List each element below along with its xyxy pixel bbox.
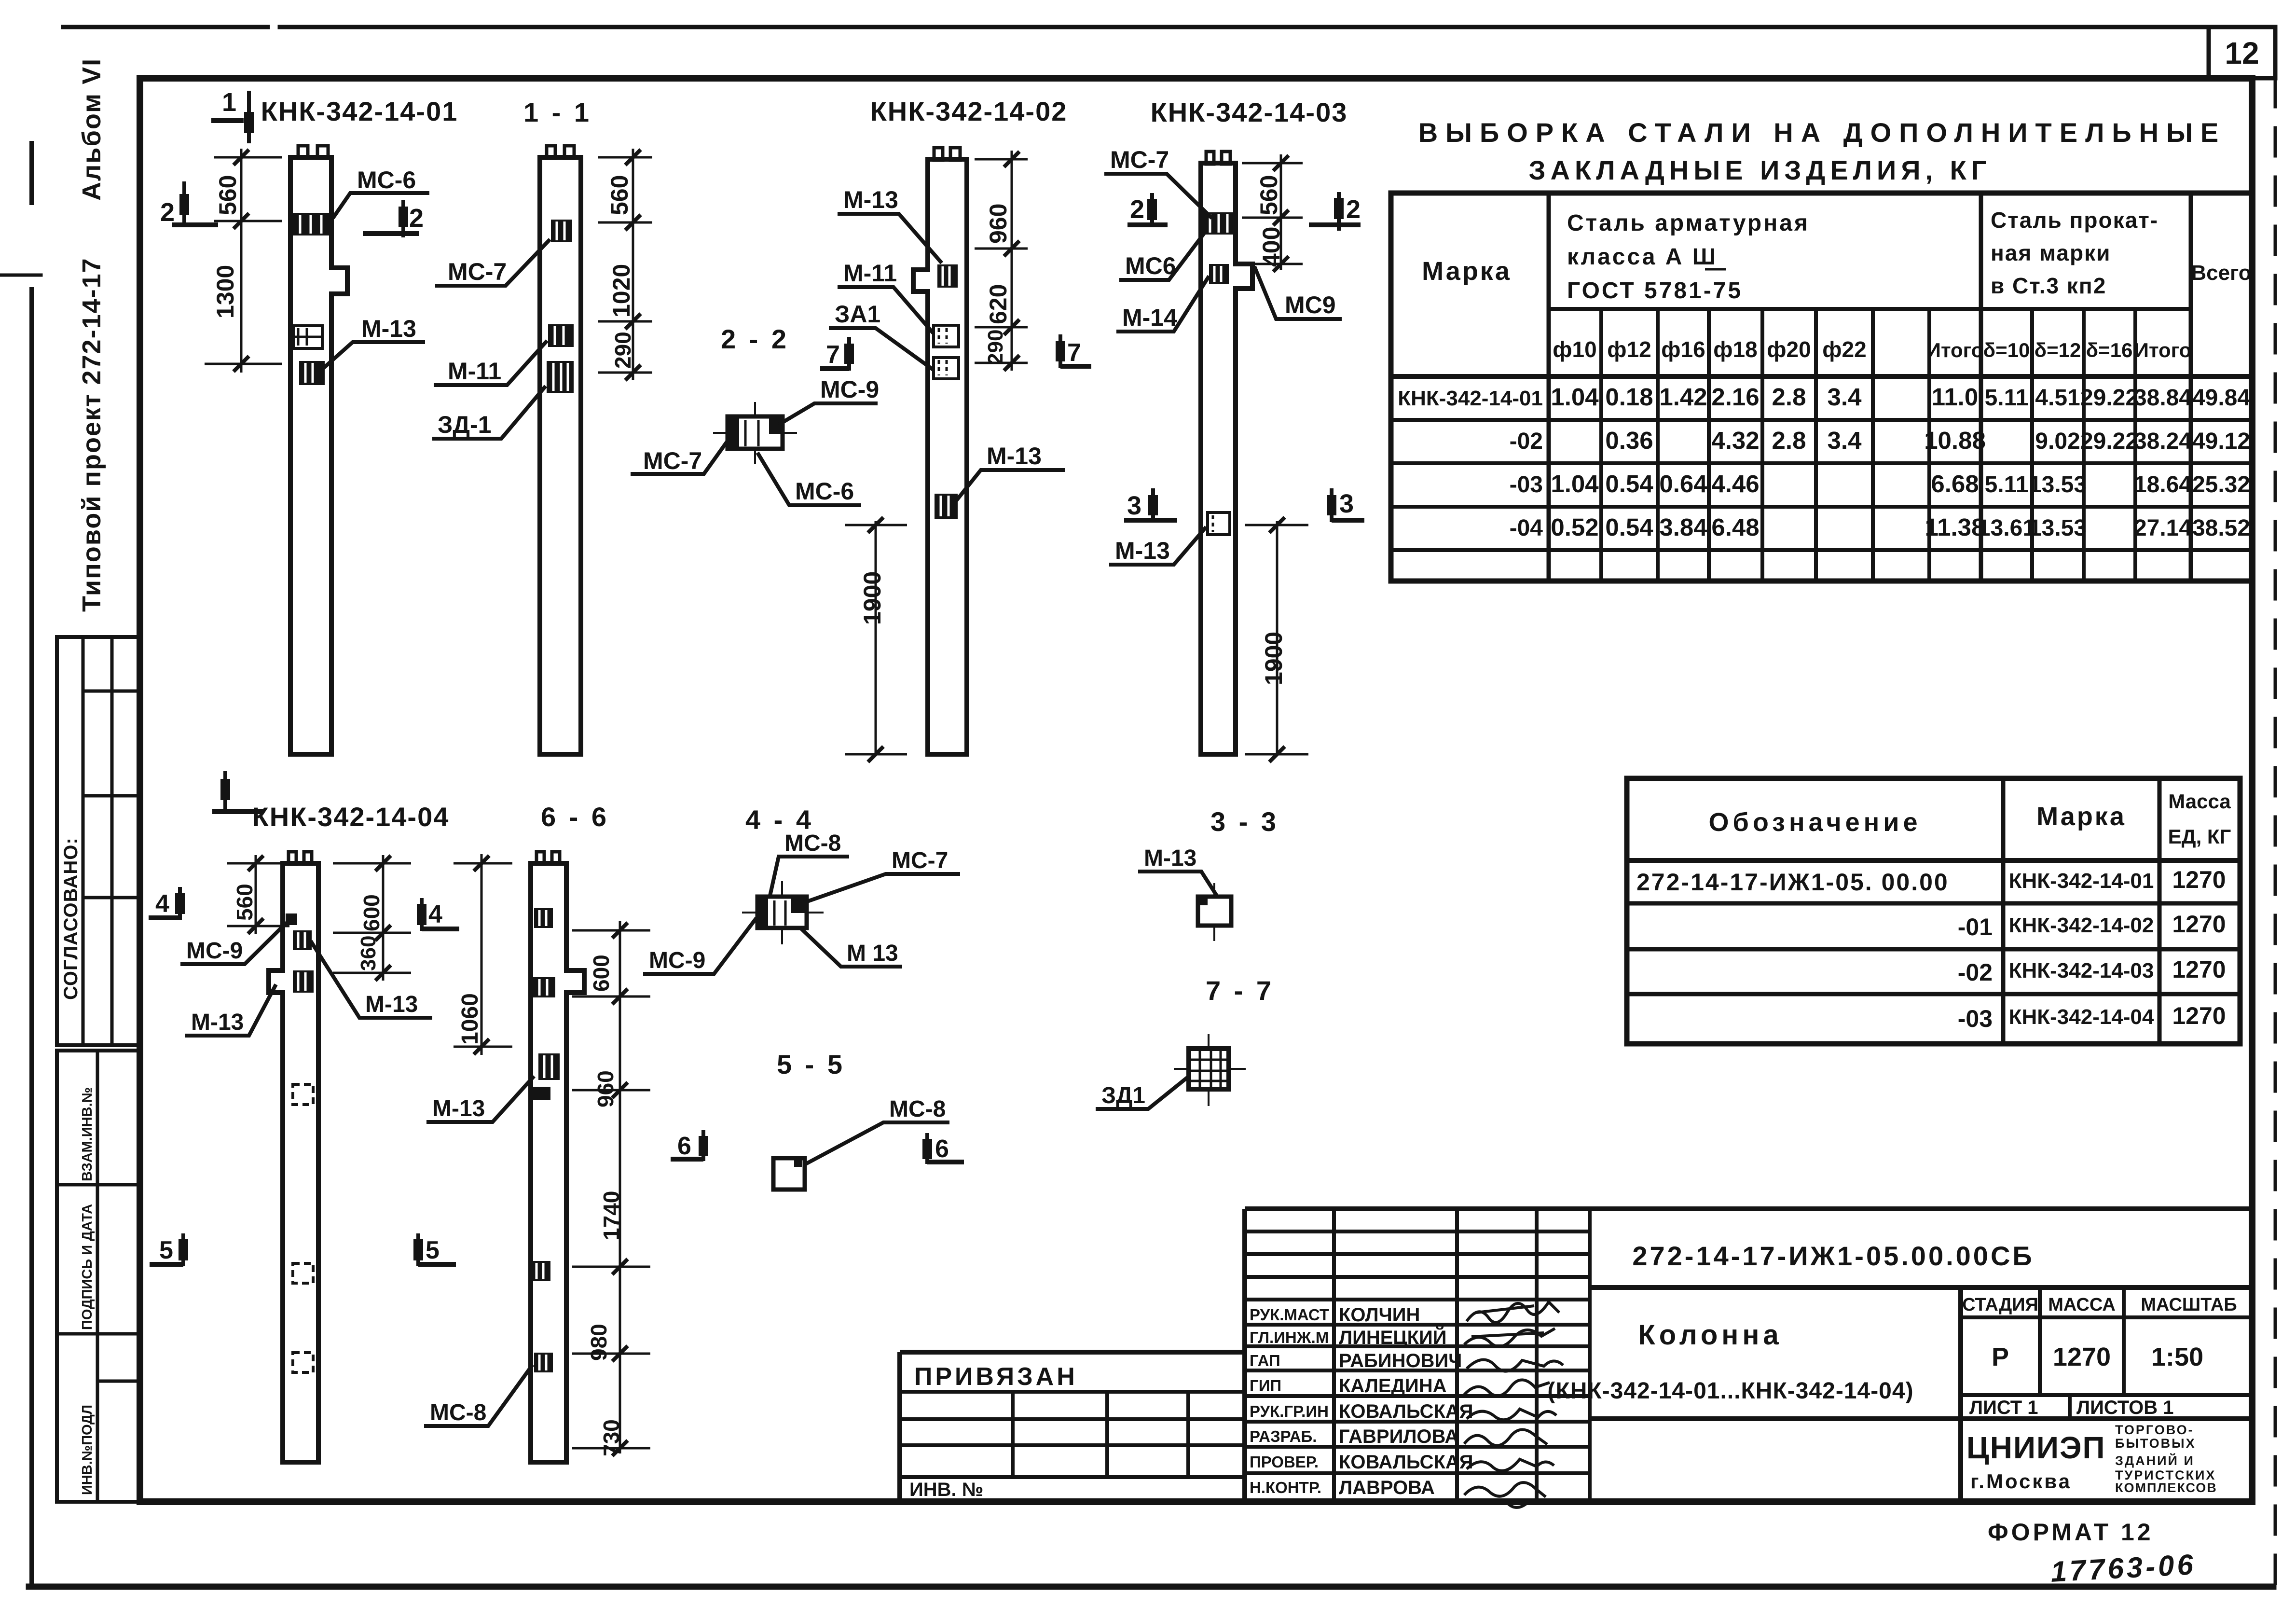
plate M-14 col03: [1209, 264, 1229, 284]
svg-text:СОГЛАСОВАНО:: СОГЛАСОВАНО:: [60, 837, 82, 1000]
svg-text:КОМПЛЕКСОВ: КОМПЛЕКСОВ: [2115, 1481, 2217, 1495]
svg-text:2: 2: [1346, 195, 1361, 224]
section 5-5 body: [773, 1158, 805, 1190]
section marker 1 top: [211, 91, 249, 143]
svg-text:РУК.МАСТ: РУК.МАСТ: [1250, 1306, 1329, 1324]
anchor plate white upper col02: [934, 325, 959, 347]
svg-text:ГАВРИЛОВА: ГАВРИЛОВА: [1339, 1426, 1458, 1447]
svg-text:1 - 1: 1 - 1: [523, 97, 592, 127]
svg-text:0.36: 0.36: [1605, 427, 1653, 454]
svg-text:ф10: ф10: [1553, 337, 1596, 362]
dimension chain 1-1: [598, 149, 652, 380]
steel table grid: [1391, 193, 2252, 581]
svg-text:М-13: М-13: [432, 1096, 485, 1121]
svg-text:ЗДАНИЙ И: ЗДАНИЙ И: [2115, 1453, 2195, 1468]
svg-text:РАЗРАБ.: РАЗРАБ.: [1250, 1427, 1317, 1445]
dim chain 6-6 right: [572, 921, 650, 1456]
anchor plate white lower col02: [934, 358, 959, 379]
svg-text:МС-6: МС-6: [357, 166, 416, 194]
svg-text:МС-8: МС-8: [430, 1400, 486, 1425]
svg-text:ЦНИИЭП: ЦНИИЭП: [1966, 1430, 2106, 1465]
svg-text:ИНВ.№ПОДЛ: ИНВ.№ПОДЛ: [80, 1405, 95, 1495]
svg-text:Марка: Марка: [1422, 257, 1512, 286]
lifting notches 6-6: [536, 852, 544, 864]
svg-text:ЗД-1: ЗД-1: [438, 411, 491, 438]
svg-text:9.02: 9.02: [2035, 429, 2080, 454]
svg-text:ИНВ. №: ИНВ. №: [909, 1479, 983, 1500]
svg-text:МС-8: МС-8: [784, 830, 841, 856]
svg-text:0.18: 0.18: [1605, 383, 1653, 411]
svg-text:δ=10: δ=10: [1983, 339, 2030, 361]
svg-text:М-13: М-13: [1144, 845, 1196, 871]
svg-text:РАБИНОВИЧ: РАБИНОВИЧ: [1339, 1350, 1462, 1371]
svg-text:КНК-342-14-02: КНК-342-14-02: [2009, 913, 2154, 937]
svg-text:400: 400: [1258, 227, 1285, 267]
svg-text:1060: 1060: [457, 993, 483, 1045]
svg-text:в Ст.3 кп2: в Ст.3 кп2: [1991, 273, 2106, 298]
column KNK-342-14-01 outline with right corbel: [290, 157, 347, 754]
svg-text:1300: 1300: [212, 265, 239, 318]
svg-text:290: 290: [610, 332, 635, 369]
svg-text:РУК.ГР.ИН: РУК.ГР.ИН: [1250, 1402, 1329, 1420]
column KNK-342-14-03 outline with right corbel: [1201, 163, 1252, 754]
svg-text:ГАП: ГАП: [1250, 1352, 1280, 1370]
dim 560 col04: [227, 855, 289, 934]
svg-text:КОВАЛЬСКАЯ: КОВАЛЬСКАЯ: [1339, 1452, 1473, 1473]
svg-text:3: 3: [1339, 489, 1354, 518]
svg-text:10.88: 10.88: [1924, 427, 1986, 454]
svg-text:29.22: 29.22: [2080, 385, 2138, 411]
svg-text:КНК-342-14-01: КНК-342-14-01: [2009, 869, 2154, 893]
plate M-11 on 1-1: [548, 324, 574, 347]
outer bottom trim line: [29, 1584, 2273, 1590]
dim 600/360 col04: [333, 855, 411, 981]
svg-text:Р: Р: [1992, 1342, 2009, 1371]
svg-text:М-11: М-11: [448, 358, 501, 385]
section 4-4 body: [742, 881, 824, 944]
svg-text:δ=16: δ=16: [2086, 339, 2133, 361]
svg-text:1900: 1900: [1260, 632, 1287, 685]
svg-text:МС9: МС9: [1285, 291, 1336, 318]
svg-text:М-13: М-13: [987, 443, 1042, 470]
plate M-13 lower col02: [935, 494, 958, 519]
svg-text:2.16: 2.16: [1711, 383, 1759, 411]
svg-text:5.11: 5.11: [1985, 385, 2029, 411]
svg-text:4: 4: [155, 890, 169, 918]
svg-text:Масса: Масса: [2168, 790, 2231, 813]
svg-text:25.32: 25.32: [2192, 472, 2250, 498]
svg-text:δ=12: δ=12: [2035, 339, 2081, 361]
svg-text:2.8: 2.8: [1772, 427, 1806, 454]
outer right dashed trim line: [2274, 79, 2277, 1587]
svg-text:ПРИВЯЗАН: ПРИВЯЗАН: [914, 1363, 1078, 1391]
section marker 2 left col03: [1127, 193, 1168, 227]
svg-text:3: 3: [1127, 491, 1141, 520]
svg-text:ЗА1: ЗА1: [835, 301, 880, 328]
svg-text:3.4: 3.4: [1828, 427, 1862, 454]
svg-text:11.0: 11.0: [1932, 383, 1978, 411]
svg-text:1270: 1270: [2172, 866, 2226, 893]
svg-text:ЛИСТОВ 1: ЛИСТОВ 1: [2076, 1397, 2174, 1418]
svg-text:3.84: 3.84: [1659, 513, 1707, 541]
svg-text:МС-9: МС-9: [186, 938, 243, 964]
svg-text:Колонна: Колонна: [1638, 1319, 1782, 1351]
svg-text:ЗД1: ЗД1: [1101, 1083, 1145, 1108]
svg-text:730: 730: [599, 1419, 624, 1456]
svg-text:МС-8: МС-8: [889, 1096, 946, 1122]
svg-text:13.53: 13.53: [2029, 472, 2087, 498]
svg-text:1270: 1270: [2172, 1002, 2226, 1029]
svg-text:ЕД, КГ: ЕД, КГ: [2168, 825, 2231, 848]
svg-text:МС-9: МС-9: [820, 376, 879, 403]
svg-text:МС-7: МС-7: [892, 848, 948, 873]
svg-text:МАСШТАБ: МАСШТАБ: [2141, 1295, 2237, 1315]
svg-text:1:50: 1:50: [2151, 1342, 2203, 1371]
svg-text:29.22: 29.22: [2080, 429, 2138, 454]
section marker 5 left: [150, 1233, 183, 1266]
dim 1060 6-6: [454, 854, 512, 1055]
svg-text:1740: 1740: [599, 1191, 624, 1240]
svg-text:-02: -02: [1510, 429, 1543, 454]
svg-text:1900: 1900: [859, 571, 886, 625]
svg-text:18.64: 18.64: [2134, 472, 2192, 498]
section 2-2 body: [713, 402, 797, 464]
svg-text:КНК-342-14-04: КНК-342-14-04: [2009, 1005, 2154, 1029]
lifting notches col04: [289, 852, 296, 864]
svg-text:38.84: 38.84: [2134, 385, 2192, 411]
svg-text:7 - 7: 7 - 7: [1206, 975, 1274, 1006]
svg-text:-03: -03: [1958, 1005, 1993, 1032]
svg-text:(КНК-342-14-01...КНК-342-14-04: (КНК-342-14-01...КНК-342-14-04): [1547, 1378, 1913, 1404]
svg-text:5: 5: [159, 1236, 173, 1264]
section 7-7 body: [1174, 1034, 1246, 1106]
svg-text:МС-7: МС-7: [643, 447, 702, 474]
anchor plate white col04 a: [293, 1084, 313, 1105]
section marker 7 right: [1060, 334, 1091, 368]
svg-text:1020: 1020: [608, 264, 635, 318]
svg-text:Сталь прокат-: Сталь прокат-: [1991, 208, 2159, 233]
svg-text:М 13: М 13: [847, 941, 898, 966]
svg-text:г.Москва: г.Москва: [1970, 1470, 2072, 1493]
svg-text:Н.КОНТР.: Н.КОНТР.: [1250, 1479, 1321, 1496]
column KNK-342-14-04 outline with left corbel: [269, 863, 318, 1462]
svg-text:ЛАВРОВА: ЛАВРОВА: [1339, 1477, 1435, 1498]
svg-text:КНК-342-14-01: КНК-342-14-01: [261, 96, 458, 126]
svg-text:М-13: М-13: [843, 186, 898, 213]
svg-text:ГОСТ 5781-75: ГОСТ 5781-75: [1567, 278, 1743, 304]
svg-text:Итого: Итого: [2134, 339, 2191, 361]
svg-text:38.52: 38.52: [2192, 515, 2250, 541]
svg-text:1270: 1270: [2172, 956, 2226, 983]
section marker 1 bottom: [212, 771, 263, 814]
small plate col04 top: [286, 913, 297, 925]
svg-text:ЛИСТ 1: ЛИСТ 1: [1969, 1397, 2038, 1418]
svg-text:МС-9: МС-9: [649, 948, 705, 973]
plate MC6 col03: [1202, 212, 1235, 235]
svg-text:Марка: Марка: [2036, 802, 2126, 831]
anchor plate white col03: [1208, 512, 1230, 535]
svg-text:ф12: ф12: [1607, 337, 1651, 362]
svg-text:11.38: 11.38: [1925, 513, 1985, 541]
svg-text:1270: 1270: [2172, 911, 2226, 938]
svg-text:4: 4: [428, 900, 442, 928]
svg-text:2 - 2: 2 - 2: [721, 324, 789, 354]
svg-text:960: 960: [593, 1070, 618, 1107]
svg-text:2: 2: [1130, 195, 1144, 224]
svg-text:КАЛЕДИНА: КАЛЕДИНА: [1339, 1375, 1447, 1397]
signatures: [1464, 1302, 1563, 1508]
svg-text:49.12: 49.12: [2192, 429, 2250, 454]
svg-text:М-13: М-13: [361, 315, 416, 342]
dimension chain column 01: [205, 149, 282, 373]
svg-text:КНК-342-14-03: КНК-342-14-03: [2009, 959, 2154, 982]
section marker 4 left: [149, 887, 180, 920]
plate MC-6 on column 01: [291, 213, 330, 235]
svg-text:7: 7: [826, 341, 840, 369]
svg-text:2: 2: [160, 198, 175, 227]
column KNK-342-14-02 outline with left corbel: [913, 159, 967, 754]
svg-text:960: 960: [985, 204, 1012, 244]
svg-text:2: 2: [409, 204, 424, 233]
svg-text:Типовой проект 272-14-17: Типовой проект 272-14-17: [77, 257, 106, 612]
column 1-1 outline: [540, 157, 581, 754]
lifting notches 1-1: [547, 146, 555, 158]
section marker 3 right: [1332, 488, 1364, 522]
soglasovano table: [57, 637, 141, 1045]
svg-text:3.4: 3.4: [1828, 383, 1862, 411]
svg-text:МС6: МС6: [1125, 252, 1176, 279]
left lower table: [57, 1051, 141, 1502]
plate M-13 top col02: [937, 264, 958, 288]
plate ZD-1 on 1-1: [547, 361, 574, 393]
svg-text:13.61: 13.61: [1978, 515, 2035, 541]
svg-text:6: 6: [677, 1132, 691, 1160]
svg-text:6.68: 6.68: [1931, 470, 1979, 498]
svg-text:Итого: Итого: [1926, 339, 1983, 361]
outer top trim line: [63, 25, 2209, 29]
svg-text:Альбом VI: Альбом VI: [77, 58, 106, 201]
svg-text:ГИП: ГИП: [1250, 1377, 1281, 1395]
dim 1900 col03: [1245, 517, 1308, 762]
svg-text:4.32: 4.32: [1711, 427, 1759, 454]
svg-text:7: 7: [1067, 339, 1081, 367]
svg-text:ЗАКЛАДНЫЕ ИЗДЕЛИЯ, КГ: ЗАКЛАДНЫЕ ИЗДЕЛИЯ, КГ: [1529, 155, 1992, 185]
svg-text:ПРОВЕР.: ПРОВЕР.: [1250, 1453, 1319, 1471]
plates 6-6: [534, 908, 553, 928]
svg-text:3 - 3: 3 - 3: [1210, 806, 1279, 837]
svg-text:ф18: ф18: [1713, 337, 1757, 362]
svg-text:КНК-342-14-02: КНК-342-14-02: [870, 96, 1068, 126]
dim 1900 col02: [845, 517, 907, 762]
svg-text:ф20: ф20: [1767, 337, 1811, 362]
svg-text:290: 290: [984, 330, 1007, 365]
svg-text:КОЛЧИН: КОЛЧИН: [1339, 1304, 1420, 1326]
svg-text:ФОРМАТ 12: ФОРМАТ 12: [1988, 1519, 2154, 1546]
section marker 5 right: [418, 1233, 456, 1266]
svg-text:1: 1: [222, 88, 236, 117]
svg-text:ГЛ.ИНЖ.М: ГЛ.ИНЖ.М: [1250, 1328, 1329, 1346]
svg-text:М-14: М-14: [1122, 304, 1177, 331]
svg-text:ЛИНЕЦКИЙ: ЛИНЕЦКИЙ: [1339, 1326, 1447, 1348]
svg-text:М-11: М-11: [843, 260, 897, 287]
svg-text:560: 560: [232, 884, 257, 921]
section marker 2 left of col01: [172, 181, 218, 225]
svg-text:4.51: 4.51: [2035, 385, 2080, 411]
column 6-6 outline with right corbel: [531, 863, 584, 1462]
svg-text:0.54: 0.54: [1605, 513, 1653, 541]
lifting notches col02: [934, 148, 943, 160]
svg-text:1.04: 1.04: [1551, 383, 1599, 411]
svg-text:600: 600: [589, 955, 614, 992]
svg-text:ф22: ф22: [1822, 337, 1866, 362]
svg-text:Обозначение: Обозначение: [1708, 808, 1921, 837]
svg-text:КОВАЛЬСКАЯ: КОВАЛЬСКАЯ: [1339, 1401, 1473, 1422]
section marker 6 right: [927, 1133, 964, 1164]
svg-text:ная марки: ная марки: [1991, 240, 2111, 265]
section marker 6 left: [671, 1130, 703, 1161]
svg-text:М-13: М-13: [1115, 537, 1170, 564]
svg-text:1.42: 1.42: [1659, 383, 1707, 411]
svg-text:ВЫБОРКА СТАЛИ НА ДОПОЛНИТЕЛ: ВЫБОРКА СТАЛИ НА ДОПОЛНИТЕЛЬНЫЕ: [1418, 117, 2227, 148]
svg-text:2.8: 2.8: [1772, 383, 1806, 411]
section marker 2 right of col01: [363, 200, 419, 237]
svg-text:1270: 1270: [2053, 1342, 2111, 1371]
section marker 3 left: [1124, 488, 1177, 522]
svg-text:49.84: 49.84: [2192, 385, 2250, 411]
section marker 7 left: [820, 337, 849, 371]
plate M-13 col04: [293, 930, 312, 950]
svg-text:560: 560: [606, 175, 633, 215]
svg-text:13.53: 13.53: [2029, 515, 2087, 541]
svg-text:-03: -03: [1510, 472, 1543, 498]
svg-text:4.46: 4.46: [1711, 470, 1759, 498]
svg-text:560: 560: [214, 175, 241, 215]
svg-text:1.04: 1.04: [1551, 470, 1599, 498]
section marker 4 right: [422, 898, 459, 931]
svg-text:27.14: 27.14: [2134, 515, 2192, 541]
svg-text:0.64: 0.64: [1659, 470, 1707, 498]
section marker 2 right col03: [1309, 192, 1361, 231]
svg-text:5 - 5: 5 - 5: [777, 1049, 845, 1079]
svg-text:6: 6: [935, 1135, 949, 1163]
svg-text:КНК-342-14-03: КНК-342-14-03: [1151, 97, 1348, 127]
lifting notches col03: [1206, 152, 1214, 164]
dimension chain col02: [975, 151, 1028, 371]
svg-text:12: 12: [2225, 36, 2259, 70]
svg-text:Сталь арматурная: Сталь арматурная: [1567, 210, 1810, 236]
svg-text:-02: -02: [1958, 959, 1993, 986]
svg-text:КНК-342-14-04: КНК-342-14-04: [252, 802, 450, 832]
outer left trim line: [29, 143, 34, 1587]
svg-text:МАССА: МАССА: [2048, 1295, 2116, 1315]
anchor plate white col04 c: [293, 1353, 313, 1372]
svg-text:Всего: Всего: [2191, 261, 2251, 285]
svg-text:6 - 6: 6 - 6: [541, 802, 609, 832]
lifting notches: [298, 146, 308, 158]
svg-text:ВЗАМ.ИНВ.№: ВЗАМ.ИНВ.№: [80, 1087, 95, 1181]
svg-text:ПОДПИСЬ И ДАТА: ПОДПИСЬ И ДАТА: [80, 1204, 95, 1330]
dimension chain col03: [1242, 154, 1303, 272]
svg-text:МС-7: МС-7: [1110, 146, 1169, 173]
svg-text:М-13: М-13: [191, 1010, 244, 1035]
svg-text:38.24: 38.24: [2134, 429, 2192, 454]
svg-text:ТОРГОВО-: ТОРГОВО-: [2115, 1423, 2194, 1437]
svg-text:класса А Ш: класса А Ш: [1567, 244, 1718, 270]
svg-text:272-14-17-ИЖ1-05. 00.00: 272-14-17-ИЖ1-05. 00.00: [1636, 869, 1949, 896]
svg-text:272-14-17-ИЖ1-05.00.00СБ: 272-14-17-ИЖ1-05.00.00СБ: [1632, 1241, 2034, 1271]
page number box: [2209, 27, 2275, 78]
svg-text:БЫТОВЫХ: БЫТОВЫХ: [2115, 1436, 2196, 1451]
svg-text:0.54: 0.54: [1605, 470, 1653, 498]
svg-text:620: 620: [985, 284, 1012, 324]
plate M-13 on column 01: [299, 361, 325, 385]
svg-text:5.11: 5.11: [1985, 472, 2029, 498]
svg-text:980: 980: [586, 1324, 611, 1361]
svg-text:5: 5: [426, 1236, 440, 1264]
svg-text:0.52: 0.52: [1551, 513, 1598, 541]
anchor plate (white) on column 01: [293, 326, 322, 348]
plate MC-7 on 1-1: [551, 220, 572, 242]
svg-text:600: 600: [359, 894, 384, 931]
section 3-3 body: [1198, 883, 1231, 941]
svg-text:360: 360: [357, 936, 380, 971]
svg-text:МС-6: МС-6: [795, 478, 854, 505]
svg-text:ф16: ф16: [1661, 337, 1705, 362]
anchor plate white col04 b: [293, 1263, 313, 1283]
svg-text:М-13: М-13: [365, 992, 418, 1017]
svg-text:КНК-342-14-01: КНК-342-14-01: [1398, 387, 1543, 410]
svg-text:560: 560: [1255, 175, 1282, 215]
svg-text:СТАДИЯ: СТАДИЯ: [1962, 1295, 2038, 1315]
svg-text:МС-7: МС-7: [448, 258, 507, 285]
svg-text:-01: -01: [1958, 913, 1993, 941]
plate at corbel col04: [293, 970, 314, 993]
svg-text:6.48: 6.48: [1711, 513, 1759, 541]
svg-text:-04: -04: [1510, 515, 1543, 541]
